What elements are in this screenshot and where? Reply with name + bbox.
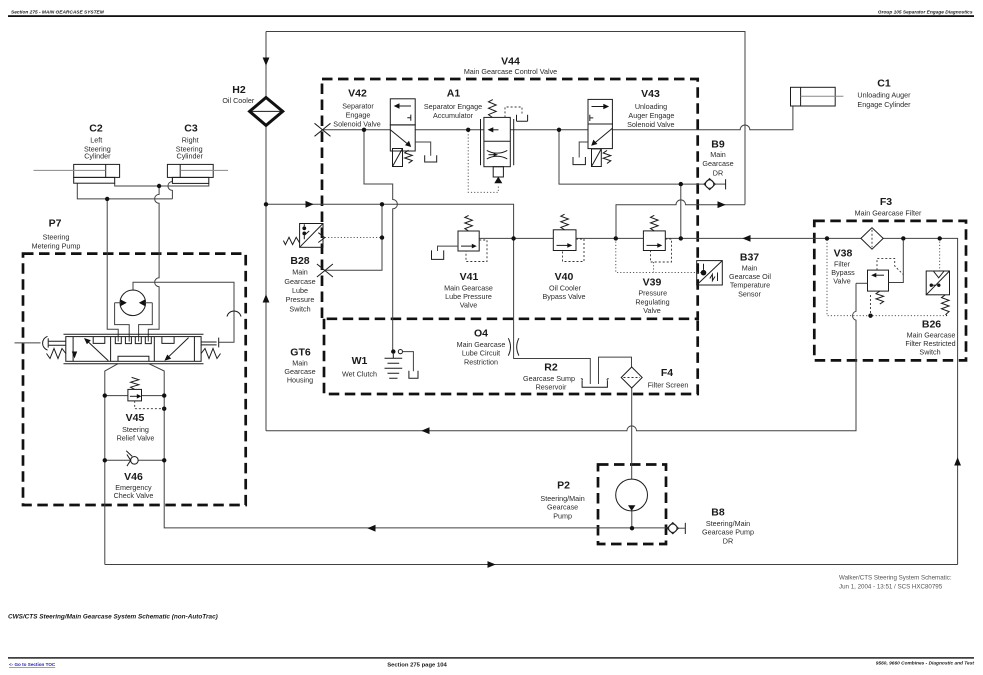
- svg-text:Pump: Pump: [553, 511, 572, 520]
- svg-text:Steering: Steering: [122, 425, 149, 434]
- wire V45 row left: [105, 395, 128, 397]
- right section arrow: [167, 338, 189, 359]
- arrow into H2 down: [263, 58, 270, 66]
- reservoir R2: [581, 379, 609, 388]
- relief valve V45: [128, 377, 164, 408]
- svg-text:Engage Cylinder: Engage Cylinder: [857, 100, 911, 109]
- node lube rail mid: [614, 236, 618, 240]
- drain orifice B8: [667, 523, 678, 534]
- svg-text:Accumulator: Accumulator: [433, 111, 474, 120]
- wire valve bottom right rail: [149, 364, 667, 528]
- svg-text:Metering Pump: Metering Pump: [32, 242, 81, 251]
- node V45 rail left: [103, 393, 107, 397]
- svg-text:Valve: Valve: [643, 306, 660, 315]
- V43 solenoid: [592, 149, 602, 167]
- wire V42 junction down to W1: [364, 130, 397, 351]
- svg-text:Oil Cooler: Oil Cooler: [549, 283, 582, 292]
- A1 spring: [489, 100, 497, 118]
- dotted pilot A1 bottom loop: [468, 131, 498, 192]
- wire feedback pilot tick: [218, 338, 220, 348]
- label W1: [342, 355, 377, 379]
- svg-text:V46: V46: [124, 471, 143, 483]
- V43 drain elbow to tank: [579, 142, 588, 158]
- svg-text:Section 275 - MAIN GEARCASE SY: Section 275 - MAIN GEARCASE SYSTEM: [11, 10, 105, 16]
- V42 return spring: [405, 150, 413, 163]
- accumulator A1: [481, 100, 528, 184]
- V42 drain elbow to tank: [415, 142, 431, 156]
- filter restricted switch B26: [926, 271, 949, 316]
- label V39: [635, 277, 669, 316]
- wire lube rail return up and right to top column: [616, 200, 745, 238]
- svg-text:Separator Engage: Separator Engage: [424, 102, 482, 111]
- svg-text:DR: DR: [723, 536, 733, 545]
- svg-text:B9: B9: [711, 139, 725, 151]
- wire C3 left port with hop: [168, 177, 172, 199]
- svg-text:R2: R2: [544, 362, 558, 374]
- label V43: [627, 88, 674, 129]
- left spring: [47, 349, 66, 359]
- svg-text:Left: Left: [90, 136, 102, 145]
- node F3 inlet: [825, 236, 829, 240]
- wire C2 right port to C3: [115, 183, 209, 186]
- svg-text:Oil Cooler: Oil Cooler: [222, 96, 255, 105]
- arrow H2 out right: [306, 201, 314, 208]
- svg-text:C3: C3: [184, 123, 198, 135]
- svg-text:Main: Main: [292, 268, 308, 277]
- dotted pilot V39 sensing from rail: [616, 238, 701, 272]
- svg-text:Relief Valve: Relief Valve: [117, 434, 155, 443]
- wire H2 inlet vertical: [265, 32, 267, 98]
- wire V45 row right: [142, 395, 165, 397]
- dashed box P7 steering metering pump: [23, 254, 246, 505]
- svg-text:Bypass Valve: Bypass Valve: [542, 292, 585, 301]
- svg-text:Lube Circuit: Lube Circuit: [462, 349, 500, 358]
- label V46: [114, 471, 154, 500]
- label A1: [424, 88, 482, 121]
- node B28 branch top: [380, 202, 384, 206]
- svg-text:Separator: Separator: [342, 101, 374, 110]
- svg-text:Cylinder: Cylinder: [84, 152, 111, 161]
- svg-text:Main: Main: [710, 150, 726, 159]
- label V45: [117, 412, 155, 443]
- svg-text:W1: W1: [352, 355, 368, 367]
- wire H2 outlet vertical down to bypass line: [265, 125, 267, 430]
- left section arrow: [87, 340, 109, 361]
- svg-text:Filter Screen: Filter Screen: [648, 380, 689, 389]
- svg-text:V45: V45: [126, 412, 145, 424]
- label R2: [523, 362, 575, 392]
- svg-text:Lube Pressure: Lube Pressure: [445, 292, 492, 301]
- svg-text:Reservoir: Reservoir: [536, 383, 567, 392]
- svg-text:Cylinder: Cylinder: [177, 152, 204, 161]
- svg-text:Temperature: Temperature: [730, 281, 770, 290]
- svg-text:V42: V42: [348, 88, 367, 100]
- arrow to top column right: [718, 201, 726, 208]
- wire V46 row right: [138, 459, 164, 461]
- svg-text:Filter: Filter: [834, 259, 851, 268]
- svg-text:Gearcase Pump: Gearcase Pump: [702, 528, 754, 537]
- svg-text:DR: DR: [713, 168, 723, 177]
- steering control valve spool: [43, 334, 221, 364]
- svg-text:Group 105 Separator Engage Dia: Group 105 Separator Engage Diagnostics: [878, 10, 973, 16]
- svg-text:Switch: Switch: [919, 348, 940, 357]
- dashed box P2 steering/main gearcase pump: [598, 465, 666, 545]
- wire bottom return line: [105, 564, 958, 566]
- label O4: [457, 328, 506, 367]
- wire C1 cylinder port to V43: [612, 106, 793, 130]
- check valve V46: [126, 451, 138, 466]
- svg-text:Right: Right: [182, 136, 199, 145]
- dotted pilot B28 sensing: [325, 237, 382, 239]
- svg-text:Gearcase: Gearcase: [284, 277, 315, 286]
- node V42 supply: [362, 128, 366, 132]
- node V43 supply: [557, 128, 561, 132]
- wire pump top feedback loop: [133, 282, 234, 342]
- wire right steering column to valve port with hops: [148, 186, 159, 342]
- svg-text:B8: B8: [711, 507, 725, 519]
- wire engage rail V42 to A1: [415, 129, 484, 131]
- dotted pilot V39 loop stub: [653, 262, 655, 272]
- wire B8 stub: [679, 527, 686, 529]
- pressure switch B28: [283, 224, 324, 248]
- end cell down arrow: [72, 352, 77, 359]
- node V38 tap: [901, 236, 905, 240]
- svg-text:Solenoid Valve: Solenoid Valve: [333, 119, 380, 128]
- wire top supply loop H2 to right column: [266, 32, 745, 205]
- cylinder C2: [34, 164, 120, 183]
- svg-text:V39: V39: [643, 277, 662, 289]
- solenoid valve V43: [573, 99, 612, 166]
- label B9: [702, 139, 733, 178]
- label V41: [444, 271, 493, 310]
- label B26: [905, 319, 955, 357]
- filter screen F3: [861, 228, 883, 250]
- svg-text:Unloading: Unloading: [635, 102, 667, 111]
- arrow right column up: [954, 457, 961, 465]
- label V42: [333, 88, 380, 129]
- node F3 pilot junction: [868, 314, 872, 318]
- test port X upper: [315, 123, 331, 136]
- header rule: [8, 15, 974, 17]
- solenoid valve V42: [390, 99, 436, 167]
- svg-text:Gearcase Oil: Gearcase Oil: [729, 272, 771, 281]
- wire C2 left port: [77, 183, 172, 199]
- svg-text:Gearcase Sump: Gearcase Sump: [523, 374, 575, 383]
- wire F3 filter to right column: [883, 238, 957, 564]
- label C2: [84, 123, 111, 161]
- svg-text:C1: C1: [877, 78, 891, 90]
- svg-text:B28: B28: [290, 255, 309, 267]
- cylinder C1: [791, 87, 844, 106]
- bottom notch: [118, 356, 149, 361]
- node H2 outlet junction: [264, 202, 268, 206]
- wire V46 row left: [105, 459, 131, 461]
- svg-text:F3: F3: [880, 196, 892, 208]
- wire left steering column to valve port: [107, 199, 118, 342]
- wire lube rail V41 to V40: [479, 237, 553, 239]
- svg-text:CWS/CTS Steering/Main Gearcase: CWS/CTS Steering/Main Gearcase System Sc…: [8, 614, 218, 621]
- node P2 outlet: [630, 526, 634, 530]
- svg-text:<- Go to Section TOC: <- Go to Section TOC: [9, 662, 56, 667]
- svg-text:V38: V38: [834, 248, 853, 260]
- svg-text:Walker/CTS Steering System Sch: Walker/CTS Steering System Schematic:: [839, 575, 952, 582]
- metering pump P7 rotor: [115, 290, 153, 342]
- node V46 rail right: [162, 458, 166, 462]
- label V38: [831, 248, 855, 286]
- svg-text:B37: B37: [740, 252, 759, 264]
- svg-text:V40: V40: [555, 271, 574, 283]
- node A1 supply: [466, 128, 470, 132]
- svg-text:Main Gearcase: Main Gearcase: [907, 330, 956, 339]
- steering wheel input symbol: [43, 336, 48, 350]
- arrow bypass line left: [421, 427, 429, 434]
- label V44: [464, 56, 557, 77]
- wire engage rail X to V42: [323, 129, 391, 131]
- label F3: [855, 196, 922, 217]
- right pilot link: [201, 342, 217, 345]
- lube pressure valve V41: [432, 215, 488, 261]
- svg-text:Valve: Valve: [833, 277, 850, 286]
- svg-text:H2: H2: [232, 84, 246, 96]
- dashed box V44 main gearcase control valve: [322, 79, 698, 319]
- svg-text:F4: F4: [661, 367, 673, 379]
- wire B8 plug tick: [684, 523, 686, 534]
- right spring: [201, 349, 220, 359]
- svg-text:Pressure: Pressure: [286, 295, 315, 304]
- svg-text:GT6: GT6: [290, 347, 311, 359]
- svg-text:Filter Restricted: Filter Restricted: [905, 339, 955, 348]
- svg-text:Housing: Housing: [287, 376, 313, 385]
- label C1: [857, 78, 911, 110]
- svg-text:B26: B26: [922, 319, 941, 331]
- label B8: [702, 507, 754, 546]
- filter bypass valve V38: [856, 240, 903, 316]
- label B37: [729, 252, 771, 299]
- dashed box GT6 main gearcase housing: [324, 319, 698, 394]
- footer rule: [8, 657, 974, 658]
- svg-text:Lube: Lube: [292, 286, 308, 295]
- label P2: [540, 480, 584, 521]
- wire B9 plug tick: [725, 179, 727, 189]
- node lube rail left: [511, 236, 515, 240]
- wire O4 lube feed down to reservoir: [514, 238, 591, 384]
- arrow lube to V39 left: [742, 235, 750, 242]
- svg-text:V43: V43: [641, 88, 660, 100]
- node V45 rail right: [162, 393, 166, 397]
- wire B28 test port branch: [325, 204, 382, 270]
- node B9 rail top: [679, 182, 683, 186]
- svg-text:Check Valve: Check Valve: [114, 491, 154, 500]
- svg-text:Pressure: Pressure: [638, 289, 667, 298]
- svg-text:Bypass: Bypass: [831, 268, 855, 277]
- wire H2 out to V44 lube top: [266, 204, 514, 238]
- svg-text:Sensor: Sensor: [738, 289, 761, 298]
- node B26 tap: [938, 236, 942, 240]
- label P7: [32, 218, 81, 251]
- svg-text:O4: O4: [474, 328, 488, 340]
- wire engage rail A1 to V43: [510, 129, 588, 131]
- wire lube rail V40 to V39: [576, 237, 643, 239]
- svg-text:Gearcase: Gearcase: [284, 367, 315, 376]
- svg-text:Solenoid Valve: Solenoid Valve: [627, 120, 674, 129]
- dotted pilot B26 antenna: [939, 238, 941, 271]
- V42 solenoid: [393, 149, 403, 167]
- node C2/C3 left junction: [105, 197, 109, 201]
- temperature sensor B37: [697, 261, 723, 285]
- arrow bottom return right: [488, 561, 496, 568]
- svg-text:Auger Engage: Auger Engage: [628, 111, 674, 120]
- wire F4 to P2 inlet: [631, 388, 633, 479]
- wire cross-link B9 to lube rail: [680, 184, 682, 238]
- dotted pilot F3 sensing line: [827, 240, 947, 316]
- wire R2 suction up through F4: [599, 357, 632, 384]
- label B28: [284, 255, 315, 314]
- oil cooler H2: [250, 98, 283, 126]
- svg-text:Main Gearcase: Main Gearcase: [457, 340, 506, 349]
- svg-text:V44: V44: [501, 56, 520, 68]
- svg-text:Restriction: Restriction: [464, 357, 498, 366]
- arrow up from bypass: [263, 294, 270, 302]
- restriction O4: [508, 338, 519, 355]
- pressure regulating valve V39: [643, 215, 671, 262]
- wire valve bottom left rail: [105, 364, 118, 565]
- svg-text:Gearcase: Gearcase: [702, 159, 733, 168]
- pump P2: [616, 479, 648, 511]
- wire B9 branch: [559, 130, 704, 184]
- svg-text:Wet Clutch: Wet Clutch: [342, 370, 377, 379]
- svg-text:Steering: Steering: [43, 233, 70, 242]
- label F4: [648, 367, 689, 389]
- feedback arc symbol: [227, 311, 241, 317]
- svg-text:A1: A1: [447, 88, 461, 100]
- center port pockets: [115, 337, 151, 344]
- svg-text:P7: P7: [49, 218, 62, 230]
- svg-text:C2: C2: [89, 123, 103, 135]
- label C3: [176, 123, 204, 161]
- dashed box F3 main gearcase filter: [814, 221, 966, 361]
- svg-text:P2: P2: [557, 480, 570, 492]
- svg-text:Section 275 page 104: Section 275 page 104: [387, 663, 447, 669]
- cylinder C3: [167, 164, 228, 183]
- V43 return spring: [603, 150, 611, 163]
- svg-text:Unloading Auger: Unloading Auger: [857, 91, 911, 100]
- arrow suction line left: [367, 525, 375, 532]
- label H2: [222, 84, 255, 105]
- node V45 pilot: [162, 407, 166, 411]
- oil cooler bypass valve V40: [553, 214, 584, 261]
- node C2/C3 right junction: [157, 184, 161, 188]
- svg-text:Main: Main: [292, 358, 308, 367]
- svg-text:Jun 1, 2004 - 13:51 / SCS H: Jun 1, 2004 - 13:51 / SCS HXC80795: [839, 584, 943, 591]
- A1 pilot drain dashed: [505, 107, 522, 117]
- svg-text:Steering/Main: Steering/Main: [706, 519, 750, 528]
- svg-text:Main Gearcase Filter: Main Gearcase Filter: [855, 208, 922, 217]
- svg-text:Steering/Main: Steering/Main: [540, 494, 584, 503]
- svg-text:Regulating: Regulating: [635, 297, 669, 306]
- node B9 rail bottom: [679, 236, 683, 240]
- wire steering input stub: [15, 342, 41, 344]
- test port X lower: [317, 264, 333, 277]
- wire P2 outlet: [631, 511, 633, 528]
- label GT6: [284, 347, 315, 385]
- svg-text:Main Gearcase Control Valve: Main Gearcase Control Valve: [464, 67, 557, 76]
- wire B9 outlet to plug: [715, 183, 725, 185]
- filter screen F4: [621, 367, 642, 388]
- svg-text:Engage: Engage: [346, 110, 371, 119]
- node B28 pilot tap: [380, 235, 384, 239]
- wire bypass line V38 to oil cooler column: [266, 283, 856, 430]
- svg-text:Main Gearcase: Main Gearcase: [444, 283, 493, 292]
- drain orifice B9: [704, 179, 715, 190]
- node V46 rail left: [103, 458, 107, 462]
- svg-text:Main: Main: [742, 263, 758, 272]
- svg-text:V41: V41: [460, 271, 479, 283]
- svg-text:Valve: Valve: [460, 301, 477, 310]
- svg-text:9560, 9660 Combines - Diagnost: 9560, 9660 Combines - Diagnostic and Tes…: [876, 661, 975, 667]
- label V40: [542, 271, 585, 301]
- svg-text:Gearcase: Gearcase: [547, 503, 578, 512]
- wire lube rail V39 to F3 filter: [665, 237, 861, 239]
- svg-text:Switch: Switch: [289, 304, 310, 313]
- wet clutch W1: [385, 349, 419, 378]
